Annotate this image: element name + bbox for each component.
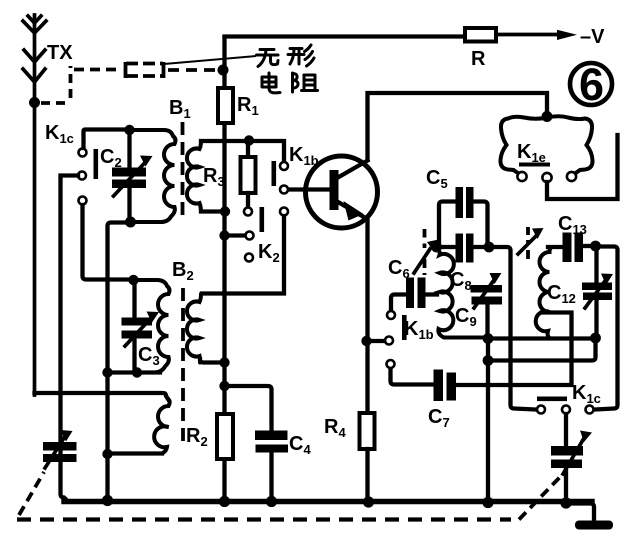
node tank A	[431, 242, 442, 253]
node bus / output gang	[560, 497, 571, 508]
wire top supply rail	[225, 34, 465, 38]
transformer B1	[130, 122, 202, 222]
wire K1e armature stub	[547, 135, 618, 199]
wire tank B down to ground	[486, 343, 490, 500]
capacitor C8	[437, 234, 490, 263]
wire main vertical bus (R1 column)	[222, 38, 226, 88]
svg-text:K1e: K1e	[517, 141, 546, 165]
svg-text:C2: C2	[100, 146, 122, 170]
inductor L1 (first tank coil)	[438, 251, 485, 338]
chassis dashed line	[17, 517, 511, 521]
node C2 bottom	[125, 217, 136, 228]
arrow to -V	[557, 30, 577, 40]
transformer B2	[134, 280, 202, 454]
wire K2/K1b lower contact to B2 secondary top	[202, 216, 284, 294]
ground bus	[64, 499, 592, 504]
capacitor C5	[439, 187, 488, 245]
resistor R	[465, 28, 496, 42]
variable capacitor (C12 tank trimmer)	[582, 250, 613, 335]
wire base-bias rail (B1 sec top / R3 top)	[201, 139, 249, 143]
svg-text:C5: C5	[426, 167, 448, 191]
node bus / left column	[102, 495, 113, 506]
node C2/B1 top	[124, 125, 134, 135]
inductor L2 (second tank coil)	[536, 247, 592, 339]
relay coil K1e	[500, 116, 592, 182]
svg-text:C13: C13	[558, 213, 587, 237]
wire base	[289, 187, 328, 191]
wire B1 secondary bottom to main line	[201, 209, 225, 213]
svg-text:C12: C12	[547, 282, 576, 306]
switch K2	[244, 207, 264, 262]
antenna TX mast	[23, 15, 46, 395]
svg-text:C6: C6	[388, 257, 410, 281]
svg-text:K1b: K1b	[289, 144, 319, 168]
node K1e top	[542, 111, 553, 122]
wire emitter to K1b	[367, 339, 385, 343]
resistor R3	[241, 144, 256, 206]
pointer line to label	[164, 56, 256, 64]
svg-text:R4: R4	[324, 416, 346, 440]
capacitor C6	[391, 278, 437, 311]
wire K1c top contact to tank top	[84, 130, 127, 149]
wire C4 branch	[225, 386, 272, 430]
wire C2 bottom to left column	[108, 223, 131, 499]
figure number 6	[570, 59, 612, 110]
switch K1b (emitter section)	[385, 311, 407, 368]
tuning core arrow (second tank)	[518, 227, 544, 263]
node ground branch	[483, 355, 494, 366]
svg-text:K1b: K1b	[404, 318, 434, 342]
wire K1c bottom contact down to C3 node	[83, 205, 130, 280]
variable capacitor C3	[122, 280, 160, 369]
capacitor C4	[255, 431, 288, 502]
wire C3 bottom rail	[108, 370, 161, 374]
wire dashed antenna feed	[41, 66, 121, 103]
node bus / C4	[266, 496, 277, 507]
svg-text:R: R	[471, 48, 486, 70]
wire to ground symbol	[566, 504, 594, 522]
transistor Q1	[306, 156, 378, 228]
variable capacitor C9	[471, 273, 503, 334]
wire K1c mid contact down to ground bus	[61, 176, 79, 500]
svg-text:R3: R3	[203, 165, 225, 189]
resistor R4	[360, 413, 375, 449]
node C13 right	[590, 241, 601, 252]
resistor R2	[217, 414, 233, 459]
svg-text:K1c: K1c	[572, 382, 601, 406]
node tank B	[484, 242, 495, 253]
capacitor C7	[391, 313, 572, 402]
wire collector to supply of K1e	[368, 93, 548, 160]
label wuxing dianzu (invisible resistance)	[257, 45, 318, 93]
resistor R1	[218, 88, 233, 123]
svg-text:–V: –V	[580, 26, 605, 48]
wire C13 node to K1c right contact	[595, 247, 618, 410]
node bus / R2	[219, 496, 230, 507]
tuning core arrow (first tank)	[414, 229, 439, 275]
invisible resistor (dashed box)	[126, 62, 217, 78]
wire tank bottom link rail	[488, 336, 592, 340]
variable capacitor (antenna tuning gang)	[19, 430, 77, 515]
wire B2 coupling winding bottom	[108, 451, 163, 455]
node bus / tank ground	[482, 497, 493, 508]
svg-text:K2: K2	[258, 241, 280, 265]
node bus / R4	[363, 496, 374, 507]
svg-text:C7: C7	[428, 406, 450, 430]
node C3 top	[128, 275, 138, 285]
svg-text:K1c: K1c	[45, 122, 74, 146]
svg-text:B1: B1	[169, 97, 191, 121]
svg-text:TX: TX	[47, 42, 73, 64]
ground	[575, 521, 613, 530]
node dashed feed / main line	[218, 65, 229, 76]
variable capacitor (output tuning gang)	[519, 414, 592, 520]
wire ground return rail	[488, 342, 596, 361]
node tank bottom	[483, 333, 494, 344]
wire emitter column	[365, 220, 369, 413]
capacitor C13	[548, 233, 592, 263]
wire R to -V	[497, 33, 560, 37]
switch K1c (antenna section)	[78, 149, 98, 205]
node antenna junction	[29, 97, 40, 108]
svg-text:6: 6	[579, 59, 604, 110]
node C3 bottom / B2	[132, 367, 142, 377]
switch K1b (base)	[272, 161, 289, 216]
svg-text:B2: B2	[172, 259, 194, 283]
wire B2 secondary bottom to main line	[200, 359, 225, 363]
svg-text:R1: R1	[237, 94, 259, 118]
wire tank B to K1c feed	[489, 247, 536, 410]
svg-text:C4: C4	[289, 433, 311, 457]
wire main line to K2 contact	[225, 233, 245, 237]
switch K1c (output section)	[537, 397, 594, 414]
variable capacitor C2	[112, 130, 153, 218]
svg-text:R2: R2	[186, 425, 208, 449]
wire antenna to B2 coupling winding	[35, 393, 169, 399]
node tank2 bottom	[590, 333, 601, 344]
